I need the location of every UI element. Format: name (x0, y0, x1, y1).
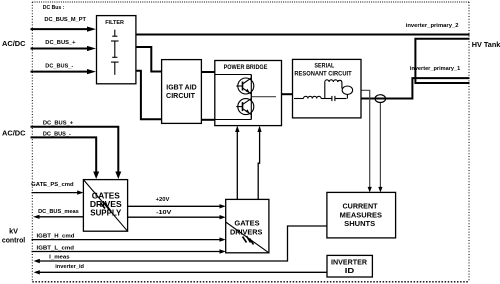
svg-text:DC_BUS_+: DC_BUS_+ (43, 120, 74, 126)
svg-text:SHUNTS: SHUNTS (344, 219, 375, 228)
svg-text:ID: ID (345, 268, 355, 275)
svg-text:control: control (2, 238, 25, 245)
svg-text:IGBT AID: IGBT AID (166, 84, 196, 91)
svg-text:DRIVERS: DRIVERS (230, 227, 263, 236)
svg-text:inverter_id: inverter_id (55, 264, 84, 270)
svg-text:DC_BUS_M_PT: DC_BUS_M_PT (44, 17, 86, 23)
svg-text:AC/DC: AC/DC (2, 39, 26, 48)
svg-text:DC_BUS_+: DC_BUS_+ (45, 40, 76, 46)
svg-text:HV Tank: HV Tank (472, 40, 500, 49)
svg-text:I_meas: I_meas (49, 254, 69, 260)
svg-text:inverter_primary_2: inverter_primary_2 (406, 23, 459, 29)
svg-text:CURRENT: CURRENT (343, 202, 379, 211)
svg-text:SERIAL: SERIAL (314, 63, 334, 70)
svg-text:IGBT_L_cmd: IGBT_L_cmd (37, 245, 75, 251)
svg-text:FILTER: FILTER (105, 20, 125, 26)
svg-text:RESONANT CIRCUIT: RESONANT CIRCUIT (294, 71, 351, 78)
svg-text:SUPPLY: SUPPLY (90, 207, 121, 217)
svg-text:DC_BUS_-: DC_BUS_- (45, 63, 73, 69)
svg-text:DC_BUS_meas: DC_BUS_meas (38, 209, 79, 215)
svg-text:+20V: +20V (156, 197, 170, 203)
svg-text:POWER BRIDGE: POWER BRIDGE (224, 64, 268, 71)
svg-text:AC/DC: AC/DC (2, 129, 26, 138)
svg-text:DC Bus :: DC Bus : (43, 5, 65, 11)
svg-text:kV: kV (9, 229, 18, 236)
svg-text:INVERTER: INVERTER (331, 260, 367, 267)
svg-text:GATE_PS_cmd: GATE_PS_cmd (31, 182, 74, 188)
svg-text:IGBT_H_cmd: IGBT_H_cmd (37, 233, 75, 239)
svg-text:GATES: GATES (234, 219, 259, 228)
svg-text:-10V: -10V (156, 210, 171, 216)
svg-text:inverter_primary_1: inverter_primary_1 (410, 66, 461, 72)
svg-text:DC_BUS_-: DC_BUS_- (43, 131, 71, 137)
svg-text:CIRCUIT: CIRCUIT (166, 93, 196, 100)
